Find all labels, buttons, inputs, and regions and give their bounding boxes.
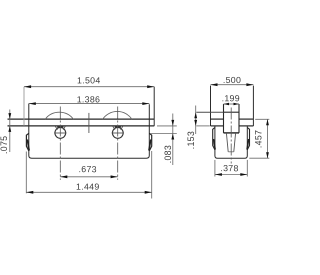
svg-text:.457: .457 <box>253 130 263 148</box>
svg-text:.500: .500 <box>223 75 241 85</box>
svg-text:1.449: 1.449 <box>76 182 100 192</box>
svg-text:.378: .378 <box>220 163 238 173</box>
svg-text:1.386: 1.386 <box>77 94 101 104</box>
svg-text:.153: .153 <box>186 131 196 149</box>
svg-text:.673: .673 <box>79 164 97 174</box>
svg-text:.199: .199 <box>222 93 240 103</box>
svg-text:.075: .075 <box>0 136 9 154</box>
svg-text:1.504: 1.504 <box>77 75 101 85</box>
svg-text:.083: .083 <box>163 145 173 163</box>
